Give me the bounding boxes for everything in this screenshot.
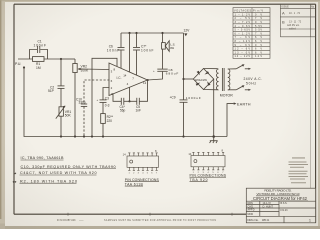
modification notes column xyxy=(289,158,309,184)
switch S2 neutral xyxy=(228,85,251,91)
svg-text:12 – 6V: 12 – 6V xyxy=(235,48,251,51)
svg-text:220: 220 xyxy=(107,119,113,123)
revision table xyxy=(280,4,315,37)
capacitor C8 xyxy=(153,49,178,75)
svg-text:14: 14 xyxy=(123,74,127,78)
resistor R2 xyxy=(101,114,114,137)
bottom strip text xyxy=(57,219,216,222)
svg-text:14: 14 xyxy=(188,152,191,156)
svg-text:12: 12 xyxy=(143,81,147,85)
svg-text:A: A xyxy=(282,11,285,16)
svg-text:+: + xyxy=(153,69,155,73)
svg-text:6 – 1·2V: 6 – 1·2V xyxy=(235,32,251,35)
wire bridge to secondary top xyxy=(204,68,218,70)
svg-text:——: —— xyxy=(79,220,84,222)
svg-text:F.N.23: F.N.23 xyxy=(281,209,289,212)
svg-text:IF IN DOUBT ASK: IF IN DOUBT ASK xyxy=(57,219,76,222)
svg-text:13 · 11 · 72: 13 · 11 · 72 xyxy=(289,20,302,23)
capacitor C7 xyxy=(133,32,154,75)
svg-text:C3: C3 xyxy=(105,97,109,101)
svg-text:B.S.S.: B.S.S. xyxy=(281,202,288,205)
op-amp IC amplifier triangle xyxy=(109,63,148,96)
svg-text:4: 4 xyxy=(142,173,144,175)
wire pin 14 to rail xyxy=(128,32,130,72)
title block xyxy=(246,188,315,223)
svg-text:2: 2 xyxy=(111,86,113,90)
wire bridge negative to ground bus xyxy=(213,79,215,137)
svg-text:51P: 51P xyxy=(48,89,55,93)
capacitor C9 xyxy=(170,33,201,137)
chassis ground symbol xyxy=(210,137,218,144)
svg-text:IC, TBA 990, TAA661B: IC, TBA 990, TAA661B xyxy=(21,156,65,160)
svg-text:6: 6 xyxy=(111,79,113,83)
svg-text:ISSUE: ISSUE xyxy=(282,5,290,8)
capacitor C6 xyxy=(107,33,125,68)
svg-text:I.C.: I.C. xyxy=(117,76,122,80)
wire supply to bridge xyxy=(182,78,184,80)
wire bridge to secondary bottom xyxy=(204,89,218,91)
svg-text:No: No xyxy=(311,5,315,8)
node 240V AC mains label xyxy=(244,77,263,85)
svg-text:1: 1 xyxy=(129,173,131,175)
svg-text:7 – 6V: 7 – 6V xyxy=(235,36,251,39)
svg-text:330p: 330p xyxy=(79,101,86,105)
loudspeaker LS xyxy=(161,32,175,51)
switch S1 live xyxy=(228,64,251,70)
IC package U1 pin connections TAA611B xyxy=(123,149,160,187)
svg-text:EARTH: EARTH xyxy=(237,102,251,106)
svg-text:10 · 1 · 72: 10 · 1 · 72 xyxy=(289,12,301,15)
svg-text:added: added xyxy=(289,28,296,31)
svg-text:0·3: 0·3 xyxy=(105,104,110,108)
svg-text:14: 14 xyxy=(123,152,126,156)
transformer T1 xyxy=(217,68,234,98)
svg-text:2: 2 xyxy=(133,173,135,175)
svg-text:+: + xyxy=(97,98,99,102)
capacitor C2 xyxy=(48,59,65,107)
svg-text:SAMPLES MUST BE SUBMITTED FOR: SAMPLES MUST BE SUBMITTED FOR APPROVAL P… xyxy=(104,219,216,222)
svg-text:56p: 56p xyxy=(120,109,126,113)
svg-text:CIRCUIT DIAGRAM for HF42: CIRCUIT DIAGRAM for HF42 xyxy=(253,196,308,201)
svg-text:R2, 180 WITH TBA 920: R2, 180 WITH TBA 920 xyxy=(20,179,77,183)
svg-text:5·5V: 5·5V xyxy=(255,25,262,28)
svg-text:100nF: 100nF xyxy=(141,48,154,52)
svg-text:8 – 12V: 8 – 12V xyxy=(235,40,251,43)
bridge rectifier W04 xyxy=(193,69,213,90)
svg-text:PIN CONNECTIONS: PIN CONNECTIONS xyxy=(190,173,227,177)
svg-text:100nF: 100nF xyxy=(34,43,47,47)
svg-text:10-1-72: 10-1-72 xyxy=(263,202,272,205)
svg-text:1: 1 xyxy=(309,218,311,222)
svg-text:8: 8 xyxy=(155,149,157,153)
svg-text:W04A/2W: W04A/2W xyxy=(195,78,208,82)
svg-text:1 – 1·2V: 1 – 1·2V xyxy=(235,13,251,16)
svg-text:7: 7 xyxy=(156,173,158,175)
svg-text:3: 3 xyxy=(138,173,140,175)
wire node to VR2 xyxy=(61,58,75,60)
svg-text:5·5V: 5·5V xyxy=(255,29,262,32)
node junction after R1 xyxy=(60,58,62,60)
svg-text:1000uF: 1000uF xyxy=(186,96,201,100)
potentiometer VR2 xyxy=(73,59,89,137)
svg-text:100nF: 100nF xyxy=(107,48,120,52)
capacitor C1 xyxy=(30,40,48,59)
svg-text:4 – 0·6V: 4 – 0·6V xyxy=(235,25,251,28)
svg-text:3 – 7·2V: 3 – 7·2V xyxy=(235,21,251,24)
wire ground branch x92 xyxy=(92,58,117,136)
svg-text:8: 8 xyxy=(222,148,224,152)
svg-text:2 – 5V: 2 – 5V xyxy=(235,17,251,20)
svg-text:P.U.: P.U. xyxy=(15,62,21,66)
svg-text:with RV etc.: with RV etc. xyxy=(287,24,300,27)
preset VR1 xyxy=(56,106,72,137)
input terminal P.U. xyxy=(15,62,25,68)
wire earth connection xyxy=(227,102,251,136)
svg-text:1M: 1M xyxy=(36,66,41,70)
svg-text:9 – 6V: 9 – 6V xyxy=(235,44,251,47)
ground bus wire xyxy=(24,68,227,138)
svg-text:C10, 330pF REQUIRED ONLY WITH: C10, 330pF REQUIRED ONLY WITH TBA990 xyxy=(21,165,116,169)
capacitor C3 xyxy=(97,88,110,114)
node 12V label xyxy=(184,29,191,37)
svg-text:MOD: MOD xyxy=(248,213,254,216)
svg-text:8Ω: 8Ω xyxy=(170,46,175,50)
svg-text:+C9: +C9 xyxy=(170,95,176,99)
svg-text:4: 4 xyxy=(127,82,129,86)
svg-text:TAA 611B: TAA 611B xyxy=(125,182,144,186)
svg-text:C4&C7, NOT USED WITH TBA 920: C4&C7, NOT USED WITH TBA 920 xyxy=(20,171,97,175)
svg-text:**: ** xyxy=(13,180,17,186)
svg-text:WB 41: WB 41 xyxy=(262,219,270,222)
svg-text:3: 3 xyxy=(111,69,113,73)
svg-text:TBA 920: TBA 920 xyxy=(190,178,208,182)
fold line right xyxy=(309,37,311,188)
wire input to R1 node xyxy=(18,58,61,60)
svg-text:6: 6 xyxy=(151,173,153,175)
svg-text:5: 5 xyxy=(147,173,149,175)
svg-text:VOLTAGES: VOLTAGES xyxy=(234,9,251,12)
svg-text:APP'D: APP'D xyxy=(248,209,255,212)
svg-text:D. HUNT: D. HUNT xyxy=(263,204,274,208)
svg-text:12V: 12V xyxy=(184,29,191,33)
voltage table xyxy=(233,8,270,59)
svg-text:680uF: 680uF xyxy=(166,72,179,76)
wire VR2 wiper to pin 3 xyxy=(83,68,110,71)
svg-text:*: * xyxy=(14,172,16,178)
IC package U2 pin connections TBA920 xyxy=(188,148,226,182)
svg-text:12V: 12V xyxy=(255,55,262,58)
svg-text:B: B xyxy=(282,19,285,24)
resistor R1 xyxy=(33,57,45,70)
capacitor C4 and C5 network xyxy=(113,81,148,113)
svg-text:5 – 0·65V: 5 – 0·65V xyxy=(235,29,251,32)
svg-text:8: 8 xyxy=(114,68,116,72)
svg-text:14 – 12V: 14 – 12V xyxy=(235,55,251,58)
svg-text:1nF: 1nF xyxy=(136,109,142,113)
supply rail 12V xyxy=(121,32,184,34)
svg-text:13 – 0V: 13 – 0V xyxy=(235,51,251,54)
svg-text:7: 7 xyxy=(132,77,134,81)
wire output pin 12 xyxy=(148,72,163,80)
svg-text:Pin/V: Pin/V xyxy=(253,9,263,12)
svg-text:PIN CONNECTIONS: PIN CONNECTIONS xyxy=(125,178,160,182)
svg-text:DRG No.: DRG No. xyxy=(248,218,260,222)
svg-text:50Hz: 50Hz xyxy=(246,82,256,86)
capacitor C10 (dashed optional) xyxy=(76,80,110,137)
svg-text:MOTOR: MOTOR xyxy=(220,94,233,98)
svg-text:50K: 50K xyxy=(65,114,72,118)
notes bottom left xyxy=(13,156,116,186)
photo edge left xyxy=(0,0,1,219)
